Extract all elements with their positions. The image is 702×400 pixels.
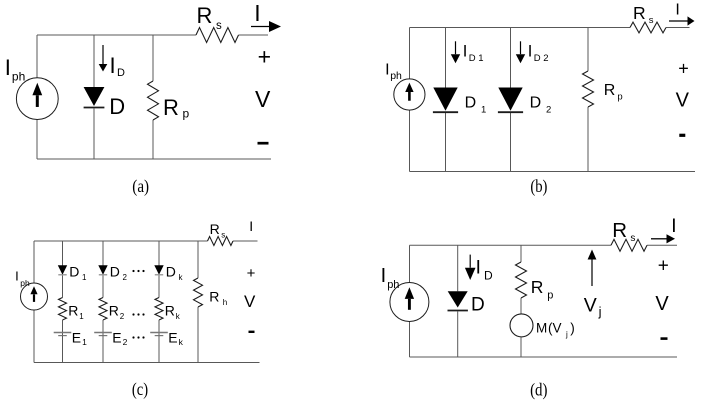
svg-text:(V: (V: [548, 321, 562, 336]
svg-text:2: 2: [123, 273, 128, 282]
svg-text:h: h: [223, 298, 227, 307]
svg-text:E: E: [112, 329, 121, 345]
svg-text:D: D: [110, 263, 120, 279]
svg-text:R: R: [612, 219, 627, 242]
svg-text:j: j: [565, 330, 568, 339]
svg-text:I: I: [528, 42, 533, 60]
svg-text:ph: ph: [387, 279, 399, 291]
svg-text:R: R: [68, 302, 78, 318]
svg-text:I: I: [675, 2, 679, 19]
svg-text:D: D: [534, 53, 541, 64]
svg-text:R: R: [109, 302, 119, 318]
svg-text:R: R: [633, 3, 646, 23]
svg-text:I: I: [110, 53, 116, 78]
svg-text:1: 1: [82, 273, 87, 282]
svg-text:1: 1: [82, 337, 87, 347]
svg-text:E: E: [168, 329, 177, 345]
svg-text:+: +: [258, 44, 271, 70]
svg-text:D: D: [465, 95, 477, 112]
svg-text:ph: ph: [12, 70, 25, 84]
svg-text:+: +: [247, 265, 256, 282]
svg-text:D: D: [471, 295, 485, 316]
svg-text:1: 1: [481, 105, 486, 116]
svg-text:s: s: [630, 233, 635, 244]
svg-text:R: R: [197, 3, 213, 28]
svg-text:(d): (d): [530, 380, 547, 400]
svg-text:D: D: [484, 269, 493, 283]
svg-text:D: D: [117, 67, 125, 79]
svg-text:(c): (c): [132, 379, 148, 400]
svg-text:R: R: [210, 221, 220, 237]
svg-text:(b): (b): [530, 176, 547, 197]
svg-text:D: D: [69, 263, 79, 279]
svg-text:1: 1: [79, 312, 84, 321]
svg-text:2: 2: [120, 312, 125, 321]
svg-text:I: I: [5, 55, 11, 80]
svg-text:V: V: [255, 86, 271, 112]
svg-text:ph: ph: [390, 70, 402, 82]
svg-text:I: I: [463, 42, 468, 60]
svg-text:s: s: [221, 230, 225, 239]
svg-text:ph: ph: [20, 278, 30, 288]
svg-text:V: V: [676, 90, 690, 112]
svg-text:R: R: [531, 277, 544, 297]
svg-text:s: s: [649, 15, 654, 26]
svg-text:p: p: [183, 107, 190, 121]
svg-text:1: 1: [478, 53, 483, 64]
svg-text:+: +: [678, 59, 689, 79]
svg-text:I: I: [249, 218, 253, 234]
svg-text:I: I: [385, 62, 389, 79]
svg-text:(a): (a): [132, 176, 149, 197]
svg-text:): ): [570, 321, 575, 336]
svg-text:j: j: [598, 304, 602, 319]
svg-text:I: I: [254, 0, 260, 26]
svg-text:V: V: [584, 295, 597, 317]
svg-text:R: R: [165, 302, 175, 318]
svg-text:+: +: [658, 256, 669, 277]
svg-text:2: 2: [123, 337, 128, 347]
svg-text:2: 2: [546, 105, 551, 116]
svg-text:E: E: [72, 329, 81, 345]
svg-text:V: V: [655, 293, 669, 315]
svg-text:R: R: [163, 95, 179, 120]
svg-text:I: I: [15, 269, 19, 284]
svg-text:M: M: [536, 321, 547, 336]
svg-text:D: D: [530, 95, 542, 112]
svg-text:R: R: [209, 289, 219, 305]
svg-text:p: p: [617, 92, 622, 103]
svg-text:I: I: [381, 265, 387, 287]
svg-text:s: s: [216, 20, 222, 32]
svg-text:D: D: [109, 94, 125, 119]
svg-text:D: D: [469, 53, 476, 64]
svg-text:k: k: [179, 337, 184, 347]
svg-text:I: I: [476, 257, 481, 278]
svg-text:I: I: [671, 216, 676, 237]
svg-text:p: p: [547, 290, 553, 302]
svg-text:D: D: [166, 263, 176, 279]
svg-text:V: V: [244, 292, 256, 311]
svg-text:2: 2: [543, 53, 548, 64]
svg-text:R: R: [604, 82, 616, 99]
